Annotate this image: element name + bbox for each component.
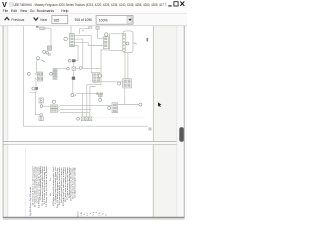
wire [75, 36, 92, 73]
wire [76, 92, 96, 94]
wire [60, 109, 92, 111]
node 1 [43, 50, 46, 53]
connector X3 row 1 [51, 105, 58, 108]
node 19 [139, 103, 142, 106]
legend line at x=56.2 (rotated) [54, 167, 57, 204]
fuse F1 [35, 87, 38, 90]
node 10 [67, 67, 70, 70]
wire [73, 62, 75, 67]
wire [110, 50, 123, 52]
node 7 [40, 114, 43, 117]
wire [40, 103, 42, 105]
legend line at x=73.7 (rotated) [72, 167, 75, 199]
legend line at x=67.8 (rotated) [66, 167, 69, 200]
node 2 [46, 52, 48, 54]
svg-text:925: 925 [54, 18, 60, 22]
combo arrow button [127, 17, 132, 24]
doc icon [10, 2, 13, 6]
mouse cursor [158, 102, 162, 107]
node 18 [118, 82, 121, 85]
legend note short lines (rotated) [50, 178, 52, 181]
svg-text:Pos: Pos [50, 178, 52, 181]
X3 pin arrows [58, 106, 60, 112]
scrollbar track [177, 26, 184, 217]
legend line at x=45.1 (rotated) [43, 166, 46, 204]
legend line at x=35.4 (rotated) [33, 166, 36, 207]
svg-text:17 Fuse box complete with fuse: 17 Fuse box complete with fuses [45, 165, 48, 207]
svg-text:1. W: 1. W [81, 212, 83, 216]
junction block JB1 [93, 73, 100, 82]
relay K1 [40, 27, 44, 30]
svg-text:Bookmarks: Bookmarks [37, 9, 55, 13]
faint grid line [95, 117, 145, 119]
wire [35, 81, 37, 86]
X1 pin arrow 2 [35, 78, 37, 80]
svg-text:File: File [3, 9, 9, 13]
node 11 [79, 67, 82, 70]
toolbar bottom edge [0, 25, 187, 27]
zoom combobox [96, 16, 133, 25]
breaker CB1 [72, 59, 76, 62]
legend page (page 2) [8, 145, 153, 218]
scrollbar thumb [179, 127, 184, 141]
node 16 [105, 33, 108, 36]
mating connector X1b [50, 72, 53, 75]
wire [82, 93, 84, 116]
X1 pin arrow [35, 73, 37, 75]
terminal strip TB1-3 [89, 117, 92, 121]
legend line at x=39.3 (rotated) [37, 165, 40, 208]
wire [124, 88, 126, 105]
node 17 [126, 42, 129, 45]
svg-text:No.: No. [50, 192, 52, 196]
svg-text:Go: Go [30, 9, 35, 13]
X2 pins [73, 36, 76, 46]
title end tick [165, 2, 167, 6]
battery positive terminal [71, 94, 74, 97]
page separator lines [3, 142, 177, 144]
window right border [183, 26, 185, 218]
title bar [0, 0, 187, 13]
wire [44, 28, 51, 46]
toolbar previous button [5, 18, 10, 21]
wire [43, 105, 51, 107]
node 12 [52, 100, 55, 103]
legend line at x=47.1 (rotated) [45, 165, 48, 207]
connector X1 row 1 [37, 72, 43, 76]
legend line at x=60.0 (rotated) [58, 167, 61, 205]
sheet number marks [149, 127, 150, 130]
wire [70, 26, 72, 33]
wire [97, 29, 103, 38]
wire [94, 49, 110, 85]
page number field [52, 15, 68, 23]
wire [36, 60, 38, 73]
svg-text:UBE7455HHU - Massey Ferguson 4: UBE7455HHU - Massey Ferguson 4200 Series… [13, 3, 164, 7]
control unit U1 [123, 31, 133, 53]
toolbar next button [34, 18, 39, 21]
wire [127, 53, 129, 79]
connector X1 row 2 [37, 77, 43, 81]
label line [30, 91, 36, 93]
window bottom border [3, 216, 185, 218]
svg-text:3. C: 3. C [87, 212, 89, 216]
diode pack D1 [97, 93, 98, 95]
node 4 [27, 72, 30, 75]
terminal strip TB1-1 [81, 117, 84, 121]
wire [60, 105, 112, 107]
svg-text:Help: Help [61, 9, 68, 13]
legend line at x=71.7 (rotated) [70, 167, 73, 201]
legend line at x=37.3 (rotated) [35, 166, 38, 203]
node 8 [64, 37, 67, 40]
node 15 [99, 98, 102, 101]
wire [73, 70, 75, 76]
drawing frame left border [22, 26, 24, 126]
wire [57, 68, 67, 70]
terminal strip TB1-2 [85, 117, 88, 121]
legend line at x=65.9 (rotated) [64, 167, 67, 202]
terminal T1 [90, 26, 93, 28]
svg-text:V: V [2, 2, 7, 9]
legend line at x=54.2 (rotated) [52, 167, 55, 206]
switch contact [42, 60, 45, 62]
wire [76, 67, 101, 69]
schematic page (page 1) [8, 26, 154, 141]
svg-text:915 of 1090: 915 of 1090 [75, 18, 93, 22]
svg-text:View: View [20, 9, 28, 13]
D1 base [98, 95, 102, 97]
wire [60, 111, 90, 113]
top edge component stub [36, 26, 39, 27]
connector X2 [70, 34, 75, 47]
wire [35, 90, 39, 115]
connector X3 row 2 [51, 109, 58, 112]
legend line at x=33.4 (rotated) [31, 166, 34, 206]
breaker CB2 [72, 77, 75, 80]
svg-text:100%: 100% [99, 18, 108, 22]
wire [100, 81, 123, 83]
connector X4 [103, 37, 108, 49]
close button [180, 2, 184, 6]
node 5 [32, 87, 35, 90]
wire [124, 51, 126, 78]
legend line at x=75.6 (rotated) [74, 166, 77, 198]
legend heading (rotated) [29, 187, 32, 216]
legend line at x=69.8 (rotated) [68, 167, 71, 198]
left outer margin [0, 26, 3, 220]
socket J2 [39, 117, 43, 121]
legend line at x=41.2 (rotated) [39, 166, 42, 200]
wire [118, 104, 139, 106]
page 2 margin line [24, 148, 26, 218]
wire [109, 38, 111, 49]
wire [99, 97, 101, 99]
terminal T2 [96, 27, 99, 30]
node 3 [37, 57, 40, 60]
node 6 [40, 105, 43, 108]
wire [90, 87, 96, 117]
svg-text:31 Main feed cable with link: 31 Main feed cable with link [74, 166, 77, 198]
fuse F2 [72, 67, 76, 70]
label b [82, 30, 84, 31]
wire [75, 39, 83, 68]
X4 pins [108, 39, 111, 46]
svg-text:Next: Next [40, 18, 47, 22]
drawing frame bottom border [23, 125, 147, 127]
wire [40, 115, 42, 118]
maximize button [174, 2, 178, 6]
wire [87, 85, 93, 117]
wire [75, 45, 78, 60]
node 14 [98, 74, 102, 78]
svg-text:Notes: Notes [77, 211, 80, 216]
socket J1 [39, 98, 43, 103]
connector X6 [112, 103, 118, 113]
window left border [2, 26, 4, 218]
wire [80, 26, 89, 33]
node 9 [68, 59, 71, 62]
wire [110, 34, 123, 38]
svg-text:Previous: Previous [11, 18, 24, 22]
legend line at x=63.9 (rotated) [62, 167, 65, 206]
legend line at x=43.2 (rotated) [41, 165, 44, 206]
wire [72, 80, 74, 94]
U1 connector [123, 33, 126, 51]
menu separator [0, 13, 187, 15]
switch S1 [47, 46, 51, 50]
K1 pin ticks [44, 28, 46, 30]
S1 base [48, 54, 51, 55]
node 20 [108, 106, 111, 109]
svg-text:Edit: Edit [11, 9, 17, 13]
connector X5 [123, 79, 132, 88]
node 13 [77, 117, 80, 120]
wire [75, 42, 103, 45]
JB1 pins [94, 82, 96, 83]
content background [0, 26, 187, 220]
legend footer stubs (rotated) [77, 211, 80, 216]
note mark k [147, 38, 149, 42]
legend line with link (rotated) [56, 167, 59, 209]
legend line at x=62.0 (rotated) [60, 167, 63, 203]
minimize button [168, 5, 171, 7]
